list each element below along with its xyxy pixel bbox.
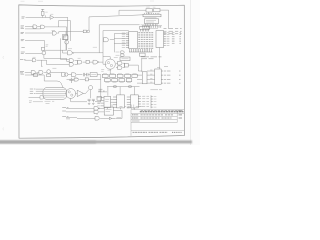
wire bbox=[97, 108, 104, 115]
gate U10B bbox=[118, 66, 122, 70]
IC U15 bbox=[117, 95, 125, 108]
gate U9A bbox=[104, 38, 109, 42]
IC U6 bbox=[145, 19, 159, 24]
buffer U1A bbox=[50, 15, 54, 19]
node A0 label bbox=[21, 26, 24, 27]
wire bbox=[25, 25, 33, 27]
label bbox=[52, 67, 56, 69]
wire bbox=[44, 40, 68, 53]
J2 pins bbox=[151, 96, 153, 107]
node D2 label bbox=[62, 115, 68, 117]
IC U11 bbox=[155, 69, 162, 84]
resistor group R7 bbox=[83, 30, 89, 33]
capacitor C1 bbox=[69, 78, 73, 83]
label C1 bbox=[75, 78, 78, 80]
box B5 bbox=[63, 36, 68, 40]
wire bbox=[37, 60, 47, 66]
RP2 labels bbox=[103, 72, 137, 74]
transistor Q3 bbox=[65, 40, 69, 44]
delay line DL1 body bbox=[43, 88, 67, 100]
relay K1 coil bbox=[65, 73, 68, 76]
wire W2 to J1 bbox=[89, 15, 143, 17]
ground bbox=[92, 103, 94, 104]
wire bbox=[116, 63, 125, 67]
wire bbox=[33, 101, 43, 103]
title row4 note bbox=[132, 120, 140, 122]
wire bbox=[86, 90, 91, 99]
wire bbox=[42, 15, 44, 17]
gate U13A bbox=[77, 90, 83, 96]
gate U10A bbox=[118, 61, 122, 65]
margin header dots bbox=[21, 0, 155, 2]
wire bbox=[44, 58, 69, 61]
gate U12A bbox=[72, 73, 77, 77]
wire bus to RAM bbox=[107, 86, 140, 88]
wire bbox=[68, 74, 82, 76]
label Y1 bbox=[101, 70, 111, 72]
label bbox=[114, 57, 118, 59]
U11 right net rows bbox=[161, 71, 170, 83]
gate U17B bbox=[94, 110, 98, 114]
gate U5A bbox=[69, 59, 73, 63]
wire bbox=[98, 91, 107, 93]
node A1 label bbox=[21, 28, 24, 30]
J2 labels bbox=[154, 96, 157, 107]
gate U2C bbox=[52, 31, 56, 35]
RP3 labels bbox=[105, 82, 131, 84]
capacitor C3 bbox=[88, 99, 91, 102]
transistor Q1 bbox=[42, 51, 46, 55]
label B7 bbox=[122, 58, 129, 60]
IC U7 CPU bbox=[129, 31, 138, 48]
gate U18A bbox=[40, 96, 44, 99]
resistor R5 bbox=[129, 86, 132, 88]
U11 pin labels bbox=[150, 70, 152, 82]
U14 text bbox=[105, 99, 109, 101]
wire bbox=[83, 61, 86, 63]
transistor Q4 bbox=[47, 70, 51, 74]
wire bbox=[111, 100, 114, 103]
wire bbox=[57, 32, 83, 35]
wire bbox=[66, 107, 94, 109]
label bbox=[117, 117, 122, 119]
gate U2A bbox=[33, 25, 37, 29]
pin comb row2 bbox=[143, 26, 161, 28]
resistor pack RP3 bbox=[105, 79, 132, 82]
label rows bbox=[141, 57, 162, 59]
connector J1 comb bbox=[143, 13, 161, 17]
wire bbox=[25, 75, 44, 81]
wire bbox=[100, 117, 109, 119]
net label bbox=[93, 46, 97, 48]
wire bbox=[47, 60, 70, 64]
relay K1 box bbox=[62, 73, 66, 77]
wire to U19 pins bbox=[137, 71, 142, 83]
wire bbox=[45, 27, 67, 35]
label B11 bbox=[106, 110, 112, 112]
wire bbox=[75, 61, 78, 65]
IC U14 bbox=[104, 96, 111, 107]
wire bbox=[25, 52, 42, 54]
label RP1 bbox=[141, 24, 148, 26]
oscillator Y1 bbox=[105, 59, 115, 69]
+5V symbol bbox=[41, 9, 44, 11]
wire bbox=[88, 17, 90, 30]
pin comb U6 bbox=[146, 24, 157, 26]
wire bbox=[66, 44, 68, 51]
pull-up ticks bbox=[179, 71, 181, 83]
box B1 decoder bbox=[62, 35, 67, 40]
resistor pack RP1 bbox=[140, 26, 150, 31]
wire bbox=[26, 17, 51, 19]
sheet number bbox=[172, 131, 182, 133]
wire bbox=[109, 69, 111, 74]
wire U19 to U11 bbox=[147, 71, 155, 83]
bus pin grid bbox=[138, 32, 153, 48]
label bbox=[116, 52, 120, 55]
Y1 inner contact bbox=[107, 62, 109, 64]
sheet border frame bbox=[19, 5, 185, 138]
U8 pin labels bbox=[167, 33, 170, 46]
U16 left pins bbox=[127, 97, 131, 107]
wire W1 bbox=[59, 21, 71, 41]
resistor R3 bbox=[85, 78, 88, 81]
node IN1 label bbox=[20, 58, 25, 60]
label bbox=[98, 89, 104, 91]
box B6 bbox=[140, 53, 146, 56]
label B9 bbox=[91, 74, 96, 76]
label U5C bbox=[78, 57, 81, 59]
node A2 label bbox=[21, 32, 24, 33]
label U3A bbox=[68, 48, 72, 50]
label U1A bbox=[50, 13, 53, 15]
U7 pin labels bbox=[122, 33, 125, 48]
wire bbox=[25, 32, 52, 34]
wire bbox=[112, 104, 122, 118]
box B7 bbox=[120, 57, 130, 61]
M1 contact bbox=[71, 94, 73, 96]
label U6 bbox=[146, 20, 156, 22]
gate U17C bbox=[95, 117, 99, 121]
node label bbox=[21, 73, 25, 75]
wire bbox=[116, 117, 122, 119]
bubble bbox=[73, 52, 74, 53]
buffer row labels bbox=[30, 89, 36, 93]
box B13 bbox=[86, 60, 89, 63]
label U2C bbox=[52, 30, 55, 32]
resistor R2 bbox=[42, 47, 45, 50]
U7 left pins bbox=[126, 33, 129, 48]
U8 net dashes bbox=[172, 33, 175, 44]
U16 right pins bbox=[138, 96, 141, 106]
label xtal bbox=[45, 101, 55, 103]
net names row bbox=[164, 29, 179, 34]
label R1 bbox=[45, 11, 47, 13]
label above B2 bbox=[146, 6, 155, 8]
wire W3 bbox=[99, 25, 139, 53]
title text company bbox=[140, 111, 184, 113]
wire bbox=[95, 75, 101, 102]
M1 contact bbox=[68, 91, 70, 93]
off-page arrow bbox=[109, 117, 115, 119]
wire bbox=[67, 17, 69, 35]
box B12 bbox=[34, 74, 38, 77]
gate U4B bbox=[31, 71, 35, 75]
margin mark left bbox=[2, 56, 5, 59]
capacitor C2 bbox=[83, 73, 88, 76]
wire bbox=[128, 59, 142, 72]
wire bbox=[119, 10, 146, 15]
capacitor C4 bbox=[92, 99, 95, 102]
gate pair U9B bbox=[121, 51, 124, 57]
title row2 bbox=[132, 114, 139, 116]
wire bbox=[66, 117, 77, 119]
motor M1 bbox=[66, 89, 76, 99]
U14 pin labels bbox=[97, 98, 100, 106]
wire bbox=[148, 12, 150, 14]
box B11 latch bbox=[104, 107, 113, 115]
wire bbox=[54, 16, 67, 18]
U15 left pins bbox=[113, 97, 117, 107]
node D0 label bbox=[62, 107, 68, 109]
title row3 bbox=[132, 117, 139, 119]
wire bbox=[66, 111, 94, 113]
wire bbox=[44, 81, 63, 87]
buffer U19 bbox=[142, 72, 147, 84]
wire stub bbox=[132, 105, 134, 110]
box B2 bbox=[146, 9, 152, 12]
U16 net labels bbox=[142, 96, 149, 106]
wire bbox=[25, 40, 44, 58]
wire bbox=[85, 74, 91, 76]
diode D1 bbox=[47, 74, 51, 77]
doc number bbox=[133, 131, 168, 133]
IC U8 ROM bbox=[156, 31, 164, 48]
node label bbox=[21, 40, 24, 41]
bubble bbox=[98, 62, 99, 63]
wire bbox=[21, 47, 24, 49]
page right edge shadow bbox=[189, 0, 191, 145]
bottom comb of U7/U8 bbox=[129, 49, 153, 52]
gate U4C bbox=[39, 71, 43, 75]
wire W4 bbox=[103, 31, 129, 53]
bottom scan shadow bbox=[0, 140, 192, 143]
wire bbox=[99, 61, 103, 63]
U8 termination ticks bbox=[179, 33, 181, 44]
label U11 bbox=[157, 67, 160, 69]
wire bbox=[88, 78, 100, 80]
wire bbox=[110, 39, 115, 41]
margin mark left lower bbox=[2, 128, 5, 131]
wire bbox=[25, 26, 41, 29]
node D1 label bbox=[62, 110, 66, 112]
resistor R4 bbox=[114, 86, 117, 88]
wire bbox=[67, 78, 86, 80]
wire bbox=[76, 92, 86, 94]
transistor Q2 bbox=[89, 86, 93, 90]
gate U12B bbox=[74, 78, 78, 81]
DL1 internal taps bbox=[44, 90, 67, 98]
wire bbox=[61, 38, 69, 59]
wire bbox=[25, 71, 31, 73]
label row bbox=[145, 17, 157, 19]
label text bbox=[150, 89, 162, 91]
wire bbox=[89, 61, 93, 63]
resistor R6 tick bbox=[46, 45, 49, 46]
wire bbox=[29, 96, 41, 98]
wire bbox=[74, 53, 107, 64]
+5V label bbox=[164, 65, 168, 67]
IC U16 bbox=[131, 95, 139, 108]
node CLK label bbox=[22, 17, 25, 18]
wire bbox=[44, 71, 47, 73]
gate U3A bbox=[68, 51, 73, 55]
capacitor tick bbox=[45, 15, 47, 17]
wire bbox=[142, 27, 158, 29]
label U4A bbox=[33, 56, 36, 58]
wire bbox=[77, 117, 95, 119]
wire bbox=[103, 57, 110, 59]
gate U17A bbox=[94, 107, 98, 111]
gate U2B bbox=[41, 25, 45, 29]
size letter cell bbox=[179, 110, 182, 112]
wire bbox=[51, 71, 62, 73]
wire bbox=[37, 26, 40, 28]
gate U4A bbox=[32, 59, 36, 62]
resistor pack RP2 bbox=[102, 74, 137, 77]
ground stubs bbox=[107, 108, 134, 110]
wire bbox=[108, 87, 134, 96]
box B9 bbox=[90, 73, 97, 77]
wire bbox=[71, 98, 87, 101]
title block bbox=[131, 110, 184, 136]
label bbox=[29, 101, 32, 103]
pin row line bbox=[142, 25, 162, 27]
bubble bbox=[99, 108, 100, 109]
box B8 bbox=[125, 63, 129, 67]
gate U5C bbox=[77, 60, 81, 64]
label above titleblock bbox=[120, 106, 143, 108]
connector J2 strip bbox=[150, 95, 152, 108]
node RST label bbox=[21, 52, 25, 54]
wire bbox=[36, 71, 39, 73]
box B3 bbox=[154, 9, 160, 12]
wire bbox=[25, 59, 33, 61]
ground bbox=[88, 103, 90, 104]
U8 right pins bbox=[164, 33, 166, 46]
termination ticks bbox=[180, 29, 182, 34]
U14 left pins bbox=[101, 98, 104, 106]
label B1 bbox=[63, 36, 66, 38]
wire bbox=[114, 34, 126, 53]
gate U5B bbox=[69, 63, 73, 66]
label bbox=[98, 102, 102, 104]
gate U5D bbox=[93, 60, 97, 64]
wire bbox=[159, 48, 161, 70]
wire bbox=[160, 10, 169, 29]
node IN2 label bbox=[20, 71, 24, 73]
Y1 inner contact bbox=[110, 64, 112, 66]
wire bbox=[36, 89, 43, 93]
box B10 bbox=[97, 97, 102, 101]
resistor R1 bbox=[41, 11, 44, 15]
